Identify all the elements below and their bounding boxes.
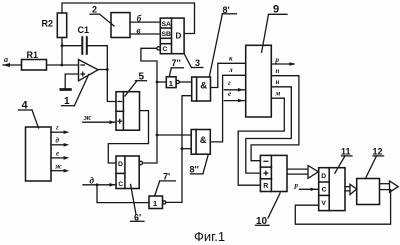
- wire gate 8'' output to block 9 (node л): [210, 75, 245, 142]
- block 12: [357, 179, 380, 205]
- wire capacitor to op-amp output: [87, 46, 108, 70]
- node д input wire: [83, 175, 116, 186]
- inverter 7': [149, 196, 163, 209]
- node р output arrow: [271, 56, 295, 66]
- svg-text:е: е: [56, 149, 59, 157]
- svg-text:C: C: [322, 186, 327, 193]
- op-amp label 1: [62, 75, 89, 108]
- 7' label: [155, 172, 176, 197]
- wire b1: [130, 21, 160, 23]
- capacitor C1: [82, 37, 87, 54]
- 7'' label: [169, 58, 183, 77]
- svg-text:R1: R1: [27, 50, 39, 60]
- inverter 7'': [166, 77, 176, 88]
- wire gate 8' output to block 9 (node к): [211, 63, 246, 87]
- svg-text:г: г: [228, 79, 231, 87]
- ground: [61, 88, 71, 91]
- 8'' label: [190, 154, 209, 174]
- op-amp plus input wire: [65, 74, 78, 88]
- svg-text:R2: R2: [42, 19, 54, 29]
- svg-text:1: 1: [169, 79, 173, 88]
- op-amp U1: [79, 60, 99, 81]
- junction: [61, 44, 64, 47]
- block 3 register: [160, 18, 184, 54]
- wire output down to block 5: [107, 70, 116, 102]
- block 12 label: [365, 147, 383, 179]
- block 5 label: [125, 72, 147, 97]
- block 10 label: [256, 193, 281, 227]
- wire R2 bottom: [61, 38, 63, 66]
- node д output: [51, 136, 69, 146]
- svg-text:7'': 7'': [172, 58, 181, 68]
- block 4: [26, 127, 52, 181]
- svg-text:б: б: [137, 14, 142, 24]
- junction on д: [96, 183, 99, 186]
- svg-text:к: к: [229, 54, 233, 62]
- junction: [106, 68, 109, 71]
- wire bus to 7'' input: [157, 81, 166, 83]
- wire to capacitor: [62, 45, 82, 47]
- svg-text:12: 12: [373, 147, 383, 157]
- node е output: [51, 149, 69, 159]
- and-gate 8': [192, 77, 211, 101]
- wire R1 to op-amp: [47, 64, 79, 66]
- svg-text:SA: SA: [162, 21, 172, 28]
- svg-text:D: D: [176, 31, 182, 40]
- 8' label top right: [209, 5, 236, 77]
- bus arrow block 11 to block 12: [345, 184, 357, 194]
- and-gate 8'': [191, 130, 210, 155]
- 6' label: [131, 185, 145, 223]
- svg-text:SB: SB: [162, 31, 172, 38]
- svg-text:R: R: [263, 183, 268, 190]
- block 11 register: [319, 168, 345, 211]
- svg-text:м: м: [275, 90, 281, 98]
- resistor R2: [57, 13, 66, 38]
- node г input to block 9: [224, 79, 245, 92]
- svg-text:11: 11: [341, 147, 351, 157]
- svg-text:7': 7': [163, 172, 170, 182]
- block 9 label: [262, 4, 287, 53]
- svg-text:V: V: [321, 200, 326, 207]
- svg-text:ж: ж: [55, 162, 62, 170]
- node г output: [51, 124, 69, 135]
- svg-text:г: г: [56, 124, 59, 132]
- junction: [181, 147, 184, 150]
- svg-text:8'': 8'': [190, 165, 199, 175]
- node м wire to block 10 R: [238, 90, 284, 186]
- wire bus to gate 8'' upper input: [157, 134, 191, 136]
- block 11 label: [335, 147, 352, 173]
- junction: [60, 64, 63, 67]
- wire op-amp output: [98, 69, 107, 71]
- flip-flop 6': [116, 156, 139, 189]
- node ж input: [83, 113, 116, 124]
- wire bus from 6' output to block 3 C input: [141, 48, 157, 163]
- svg-text:п: п: [276, 67, 280, 75]
- svg-text:1: 1: [153, 199, 157, 208]
- svg-text:в: в: [137, 26, 141, 36]
- node р input to block 11 C: [294, 181, 319, 191]
- svg-text:д: д: [56, 136, 60, 144]
- block 9: [246, 45, 272, 117]
- 6' output bubble: [139, 161, 142, 164]
- svg-text:&: &: [200, 80, 207, 91]
- svg-text:ж: ж: [84, 113, 92, 122]
- svg-text:C: C: [163, 46, 168, 53]
- node е input to block 9: [224, 90, 245, 102]
- block 12 output bus arrow: [380, 181, 399, 192]
- wire b2: [130, 33, 160, 35]
- block 2: [111, 13, 130, 38]
- node п wire to block 10 minus: [251, 67, 299, 161]
- svg-text:C: C: [118, 181, 123, 188]
- svg-text:C1: C1: [78, 25, 90, 35]
- svg-text:3: 3: [195, 58, 200, 68]
- node ж output: [51, 162, 69, 172]
- svg-text:Фиг.1: Фиг.1: [194, 229, 225, 244]
- svg-text:2: 2: [92, 5, 97, 15]
- svg-text:D: D: [118, 161, 123, 168]
- junction: [156, 81, 159, 84]
- block 3 label: [184, 54, 203, 68]
- node н wire to block 10 plus: [246, 78, 291, 173]
- wire 7' output up to gates: [166, 96, 192, 203]
- input a arrow: [3, 63, 22, 67]
- svg-text:D: D: [321, 173, 326, 180]
- svg-text:р: р: [275, 56, 280, 64]
- resistor R1: [22, 60, 47, 71]
- svg-text:л: л: [228, 66, 233, 74]
- block 3 C input bubble: [157, 47, 160, 50]
- svg-text:д: д: [90, 175, 95, 185]
- block 5 comparator: [116, 92, 140, 131]
- block 10 counter: [260, 155, 287, 191]
- wire block5 output to 6' D: [108, 111, 148, 163]
- svg-text:е: е: [228, 90, 231, 98]
- wire feedback block 12 output to block 11 V: [295, 190, 390, 225]
- svg-text:р: р: [294, 181, 299, 189]
- svg-text:а: а: [4, 55, 8, 64]
- wire to gate 8'' lower input: [182, 148, 191, 150]
- svg-text:н: н: [276, 78, 280, 86]
- svg-text:&: &: [200, 135, 207, 146]
- wire R2 top feedback from block 3 D output: [62, 3, 195, 34]
- bus arrow block 10 to block 11 D: [287, 166, 318, 179]
- wire 7'' output to gate 8': [179, 81, 191, 83]
- junction: [156, 134, 159, 137]
- wire д to 7' input: [97, 185, 149, 203]
